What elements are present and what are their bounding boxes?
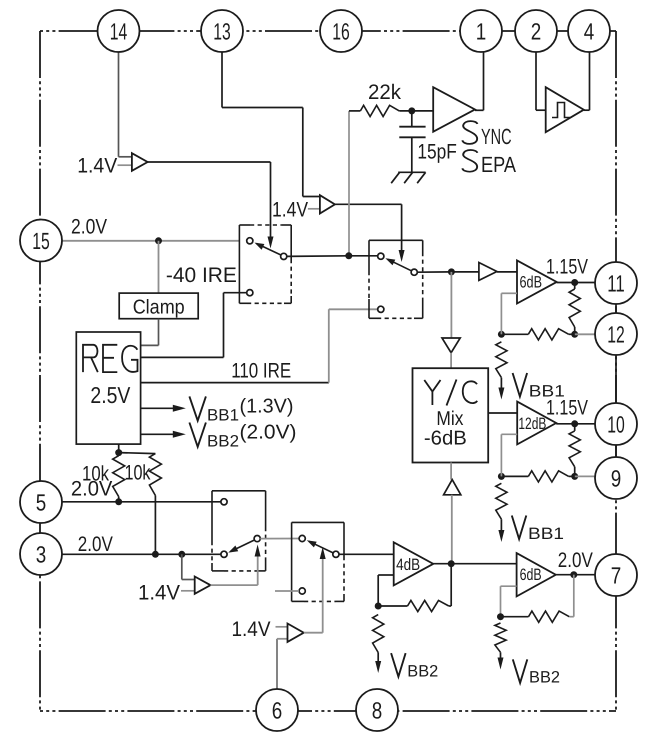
svg-text:6dB: 6dB [520, 566, 542, 584]
label VBB1 (1.3V) [189, 396, 206, 420]
label REG [83, 345, 138, 372]
resistor R4 feedback [569, 431, 580, 467]
arrowhead S1 lever [255, 243, 265, 250]
label VBB2 (2.0V) [189, 423, 206, 447]
wire [574, 327, 576, 334]
S1 lever [257, 244, 281, 256]
svg-text:4: 4 [584, 18, 595, 44]
IC boundary border (dashed rectangle) [40, 30, 616, 32]
wire [574, 283, 576, 290]
svg-text:1.4V: 1.4V [272, 198, 308, 221]
resistor 10k left [113, 456, 125, 497]
wire pin12-pin10 link [615, 355, 617, 403]
wire 110 IRE [141, 382, 329, 384]
svg-text:1.4V: 1.4V [232, 618, 271, 641]
arrowhead S4 control [320, 547, 326, 559]
wire -40 IRE up [223, 293, 225, 358]
wire U10 out to pin10 [556, 423, 595, 425]
wire [378, 605, 407, 607]
svg-text:2.0V: 2.0V [71, 477, 113, 500]
amp U7 6dB [517, 260, 557, 303]
wire into comparator U3 top input [303, 196, 320, 198]
clamp block [119, 293, 198, 319]
wire into U11 top input [182, 579, 195, 581]
pin 8 [356, 689, 398, 731]
S1 pole [281, 253, 287, 259]
svg-text:YNC: YNC [481, 124, 512, 149]
svg-text:2: 2 [531, 18, 542, 44]
wire feedback into U14 [501, 585, 517, 587]
node 10k/pin5 [115, 498, 122, 505]
arrowhead VBB1 [173, 405, 186, 412]
wire U3 output drop to switch S2 [401, 204, 403, 252]
svg-text:8: 8 [372, 697, 383, 723]
svg-text:BB2: BB2 [407, 662, 438, 680]
svg-text:6dB: 6dB [520, 274, 543, 292]
wire buffer to 6dB amp [497, 271, 517, 273]
wire pin15 2.0V run [62, 240, 239, 242]
wire feedback up [500, 293, 502, 334]
wire U7 out to pin11 [557, 282, 596, 284]
resistor R9 feedback [529, 611, 570, 622]
comparator U11 (1.4V) [195, 577, 211, 594]
wire feedback down [500, 586, 502, 617]
wire U11 output up to S3 [257, 556, 259, 585]
wire 1.4V stub to U2 [118, 164, 132, 166]
wire pin14 to comparator U2 input [119, 156, 132, 158]
svg-text:2.0V: 2.0V [71, 216, 107, 239]
wire pulse out [584, 109, 590, 111]
node R1/R2 [571, 331, 578, 338]
wire pulse out to pin4 [589, 52, 591, 110]
arrowhead VBB2 [173, 431, 186, 438]
pulse shaper amp U5 [546, 87, 584, 132]
node luma junction [448, 268, 455, 275]
S2 contact upper [378, 253, 384, 259]
wire [569, 333, 575, 335]
wire VBB2 out [141, 433, 176, 435]
wire REG bottom [118, 444, 120, 456]
switch S4 box [292, 521, 344, 523]
wire [574, 424, 576, 431]
svg-text:2.5V: 2.5V [90, 382, 131, 408]
wire 110 IRE up [328, 309, 330, 382]
svg-text:1.4V: 1.4V [77, 155, 117, 178]
wire to buffer U6 [451, 271, 479, 273]
svg-text:9: 9 [611, 465, 622, 491]
svg-text:22k: 22k [368, 81, 401, 104]
wire Y/C to 12dB amp [488, 412, 517, 414]
wire 22k to sync amp [399, 110, 433, 112]
wire S4 pole to 4dB amp [339, 553, 394, 555]
wire [569, 475, 575, 477]
svg-text:1.4V: 1.4V [138, 582, 180, 605]
switch S1 box [239, 224, 250, 226]
wire chroma up from 4dB out [451, 495, 453, 564]
resistor 10k right [149, 454, 161, 496]
pin 9 [595, 457, 637, 499]
svg-text:BB1: BB1 [528, 525, 564, 543]
arrowhead VBB2 b [498, 658, 504, 670]
wire feedback to U10 [501, 433, 517, 435]
svg-text:14: 14 [110, 18, 128, 44]
svg-text:(2.0V): (2.0V) [240, 422, 297, 444]
svg-text:110 IRE: 110 IRE [231, 360, 291, 383]
pin 12 [595, 313, 637, 355]
svg-text:13: 13 [213, 18, 231, 44]
svg-text:5: 5 [36, 489, 47, 515]
arrowhead S1 control [268, 237, 274, 249]
wire U13 out [433, 563, 516, 565]
wire 1.4V stub to U12 [276, 626, 288, 628]
svg-text:1.15V: 1.15V [546, 255, 588, 278]
svg-text:2.0V: 2.0V [78, 533, 113, 556]
svg-text:12: 12 [607, 321, 625, 347]
capacitor C1 15pF [411, 111, 413, 127]
wire luma down [450, 272, 452, 338]
svg-text:-6dB: -6dB [424, 428, 467, 450]
wire U2 output drop to switch S1 [270, 162, 272, 239]
wire VBB1 out [141, 407, 176, 409]
pin 6 [256, 689, 298, 731]
label VBB1 a [513, 373, 528, 397]
resistor R2 [528, 329, 568, 340]
S3 contact lower [221, 551, 227, 557]
label VBB1 b [512, 516, 527, 540]
wire pin2 drop [535, 52, 537, 110]
pin 5 [20, 481, 62, 523]
pin 7 [595, 554, 637, 596]
wire [377, 653, 379, 662]
resistor 22k [360, 105, 399, 116]
buffer U8 (down) [442, 338, 460, 353]
wire pin10-pin9 link [615, 445, 617, 457]
node R4/R5 [571, 473, 578, 480]
wire pin14 drop [118, 52, 120, 157]
resistor R3 to VBB1 [496, 342, 507, 378]
wire pin13 horizontal [222, 107, 303, 109]
S3 pole [254, 536, 260, 542]
S4 pole [333, 551, 339, 557]
wire [501, 333, 528, 335]
wire pin13 drop 2 [302, 108, 304, 197]
wire sync out to pin1 [483, 52, 485, 110]
wire to 10k right top [119, 453, 156, 454]
resistor R6 to VBB1 [496, 483, 507, 519]
wire 1.4V stub to U3 [308, 208, 320, 210]
S2 contact lower [378, 306, 384, 312]
arrowhead VBB1 a [498, 388, 504, 400]
wire 10k right to pin3 net [154, 496, 156, 555]
wire to pin12 [575, 333, 596, 335]
arrowhead S2 control [399, 250, 405, 262]
wire down to clamp [158, 241, 160, 293]
comparator U2 (1.4V) [132, 153, 148, 171]
pin 3 [20, 533, 62, 575]
S4 contact upper [299, 535, 305, 541]
node video junction [345, 252, 352, 259]
pin 16 [320, 10, 362, 52]
S3 lever [231, 540, 255, 552]
svg-text:BB1: BB1 [207, 407, 239, 425]
S4 contact lower [299, 588, 305, 594]
label Y/C [424, 380, 477, 406]
wire feedback drop 4dB [450, 564, 452, 606]
arrowhead S2 lever [385, 258, 395, 265]
arrowhead S3 lever [228, 546, 238, 553]
wire clamp to REG 2 [141, 344, 159, 346]
wire tap down to U11 [181, 554, 183, 579]
S2 pole [411, 269, 417, 275]
pin 15 [20, 220, 62, 262]
svg-text:12dB: 12dB [518, 415, 546, 433]
svg-text:11: 11 [607, 270, 625, 296]
wire feedback up to out [573, 575, 575, 617]
wire [501, 475, 528, 477]
svg-text:16: 16 [332, 18, 350, 44]
svg-text:3: 3 [36, 541, 47, 567]
svg-text:15pF: 15pF [417, 141, 457, 164]
buffer U6 [479, 263, 497, 281]
wire -40 IRE [141, 356, 224, 358]
wire pin3 2.0V run [62, 553, 224, 555]
wire [449, 605, 451, 607]
node pin7 out [570, 571, 577, 578]
wire pin6 up [276, 639, 278, 689]
amp U10 12dB [517, 402, 556, 445]
arrowhead VBB2 a [375, 661, 381, 673]
label VBB2 a [391, 653, 406, 677]
svg-text:10: 10 [607, 411, 625, 437]
pin 14 [98, 10, 140, 52]
pin 13 [201, 10, 243, 52]
sync separator amp U4 [433, 87, 475, 132]
wire [569, 616, 574, 618]
wire U11 output [211, 584, 258, 586]
wire U12 output [304, 632, 323, 634]
svg-text:4dB: 4dB [396, 556, 420, 574]
wire feedback to U7 [501, 292, 517, 294]
buffer U9 (up) [444, 480, 461, 495]
svg-text:Clamp: Clamp [133, 297, 185, 319]
svg-text:1.15V: 1.15V [546, 397, 588, 420]
wire S4 lower contact stub [275, 590, 299, 592]
label SYNC SEPA [462, 121, 477, 144]
wire S1 pole out [287, 255, 349, 258]
REG block [76, 332, 140, 444]
wire [501, 616, 529, 618]
comparator U12 (1.4V) [288, 624, 304, 642]
wire pin5 2.0V run [62, 501, 224, 503]
pin 10 [595, 403, 637, 445]
node R2/R3 [498, 331, 505, 338]
switch S3 box [212, 490, 266, 492]
node R7/R8 [375, 603, 382, 610]
node pin11 out [571, 279, 578, 286]
wire [500, 652, 502, 658]
svg-text:(1.3V): (1.3V) [240, 396, 294, 418]
pulse symbol [552, 103, 570, 118]
wire feedback up 4dB [377, 575, 379, 606]
wire pin6 into U12 [277, 638, 288, 640]
wire 1.4V stub to U11 [181, 590, 195, 592]
label VBB2 b [513, 659, 528, 683]
svg-text:BB2: BB2 [207, 433, 239, 451]
wire 110 IRE to S2 contact [329, 308, 378, 310]
node 10k top [115, 449, 122, 456]
svg-text:6: 6 [272, 697, 283, 723]
wire S3 pole to S4 [260, 538, 299, 540]
pin 2 [515, 10, 557, 52]
svg-text:-40 IRE: -40 IRE [166, 264, 237, 287]
Y/C Mix block [413, 368, 489, 462]
svg-text:BB2: BB2 [529, 669, 560, 687]
wire S2 pole out [417, 271, 451, 273]
wire video to 22k [348, 111, 350, 256]
node comp tap [178, 551, 185, 558]
resistor R7 feedback [408, 600, 449, 611]
wire pin11-pin12 link [615, 304, 617, 313]
pin 1 [460, 10, 502, 52]
wire U3 output [335, 203, 402, 205]
svg-text:10k: 10k [125, 462, 151, 485]
wire -40 IRE to S1 contact [224, 292, 247, 294]
comparator U3 (1.4V) [320, 195, 335, 213]
wire clamp to REG [158, 319, 160, 346]
node chroma out [448, 560, 455, 567]
svg-text:EPA: EPA [481, 152, 516, 177]
S3 contact upper [221, 499, 227, 505]
S1 contact lower [247, 290, 253, 296]
pin 11 [595, 262, 637, 304]
node R9/R10 [497, 613, 504, 620]
wire to pin9 [575, 475, 596, 477]
wire feedback into U13 [378, 574, 394, 576]
S4 lever [309, 541, 333, 553]
arrowhead S4 lever [307, 540, 317, 547]
node 10k/pin3 [152, 551, 159, 558]
S2 lever [388, 259, 412, 271]
node 22k/cap junction [408, 107, 415, 114]
wire [500, 378, 502, 388]
resistor R10 to VBB2 [495, 623, 506, 652]
arrowhead VBB1 b [498, 530, 504, 542]
resistor R5 [528, 471, 568, 482]
wire Y/C bottom [450, 463, 452, 480]
S1 contact upper [247, 238, 253, 244]
resistor R1 feedback [569, 289, 580, 327]
wire pin2 to pulse amp [536, 109, 546, 111]
wire [574, 467, 576, 477]
resistor R8 to VBB2 [373, 615, 384, 653]
ground [398, 171, 425, 173]
wire buffer to Y/C box [450, 353, 452, 369]
wire to S2 contact [349, 255, 378, 257]
svg-text:15: 15 [32, 228, 50, 254]
amp U13 4dB [394, 542, 434, 585]
svg-text:7: 7 [611, 562, 622, 588]
wire feedback up 12dB [500, 434, 502, 476]
switch S2 box [369, 239, 423, 241]
node R5/R6 [498, 473, 505, 480]
svg-text:1: 1 [476, 18, 487, 44]
wire to 22k left [349, 110, 360, 112]
wire sync out [475, 109, 484, 111]
arrowhead S3 control [255, 545, 261, 557]
svg-text:2.0V: 2.0V [558, 549, 593, 572]
wire pin13 drop [221, 52, 223, 108]
wire U14 out to pin7 [556, 574, 596, 576]
node clamp tap [155, 237, 162, 244]
pin 4 [568, 10, 610, 52]
wire [500, 519, 502, 530]
amp U14 6dB [517, 553, 556, 596]
node pin10 out [571, 420, 578, 427]
wire U2 output [148, 161, 271, 163]
wire U12 output up to S4 [322, 558, 324, 633]
